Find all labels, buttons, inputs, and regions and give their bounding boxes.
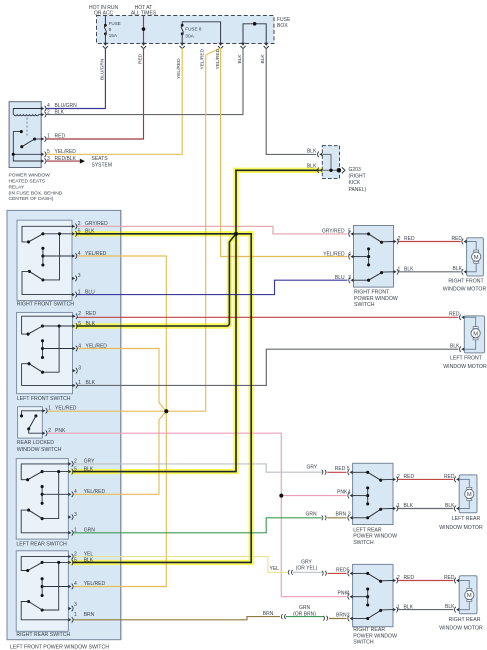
svg-text:BOX: BOX [277, 23, 288, 29]
left rear window motor pin BLK [456, 507, 459, 510]
svg-text:WINDOW MOTOR: WINDOW MOTOR [439, 525, 483, 531]
right rear power window switch lower blade dots [366, 617, 369, 620]
right front switch center bar mid dot [41, 254, 44, 257]
svg-text:YEL/RED: YEL/RED [176, 58, 182, 79]
svg-text:RED: RED [404, 474, 415, 480]
right rear switch right internal riser [42, 562, 59, 610]
right front power window switch lower blade [369, 273, 382, 281]
left rear switch upper blade [28, 472, 42, 480]
svg-text:FUSE: FUSE [109, 21, 121, 26]
left rear window motor brush caps [467, 487, 472, 489]
relay contact dot upper [20, 130, 23, 133]
svg-text:3: 3 [78, 273, 81, 279]
right rear power window switch pin 3 [350, 617, 353, 620]
right rear power window switch upper blade [368, 573, 381, 581]
svg-text:2: 2 [78, 221, 81, 227]
svg-text:RED: RED [336, 567, 347, 573]
left front switch box [17, 312, 73, 393]
right rear power window switch pin5 internal lead [353, 572, 368, 574]
svg-text:BRN: BRN [263, 611, 274, 617]
left front switch center bar bottom dot [41, 356, 44, 359]
left front switch riser junction dot [58, 324, 61, 327]
relay blade [22, 139, 35, 147]
svg-text:4: 4 [47, 103, 50, 109]
relay pin 4 [41, 107, 44, 110]
left rear switch pin 1 [68, 531, 71, 534]
right rear power window switch pin2 internal lead [381, 580, 393, 582]
svg-text:3: 3 [47, 156, 50, 162]
left front switch upper blade contact dot [41, 324, 44, 327]
relay pin 2 [41, 113, 44, 116]
left rear switch pin4 internal lead [42, 493, 68, 495]
left rear power window switch pin 1 [393, 507, 396, 510]
fuse F9 [104, 24, 107, 27]
svg-text:1: 1 [397, 503, 400, 509]
right front switch pin 4 [72, 254, 75, 257]
right front power window switch pin 5 [350, 232, 353, 235]
right rear switch lower blade contact dot [41, 608, 44, 611]
right rear power window switch center contact bar [367, 589, 369, 605]
right front window motor armature circle [472, 252, 481, 261]
left rear switch pin 3 [68, 515, 71, 518]
svg-text:OR ACC: OR ACC [94, 10, 114, 16]
svg-text:4: 4 [348, 251, 351, 257]
left rear switch upper blade contact dot [41, 470, 44, 473]
svg-text:G203: G203 [349, 167, 361, 173]
right rear switch center contact bar [41, 579, 43, 596]
right front switch center bar top dot [41, 247, 44, 250]
left front switch pin 5 [73, 324, 76, 327]
right rear power window switch lower blade [368, 610, 381, 618]
wire YEL/RED junction J2 to right front switch pin4 [77, 256, 167, 411]
right rear switch pin2 internal lead [21, 557, 68, 571]
left front switch pin 1 [73, 384, 76, 387]
right front power window switch upper blade [369, 234, 382, 242]
G203 connector pin upper [319, 153, 322, 156]
left front switch pin2 internal lead [22, 316, 73, 334]
svg-text:(RIGHT: (RIGHT [349, 174, 366, 180]
right rear switch pin 1 [68, 618, 71, 621]
left rear switch center contact bar [41, 487, 43, 504]
wire YEL/RED junction J2 to left front switch pin4 [77, 349, 166, 412]
right front power window switch pin5 internal lead [354, 233, 369, 235]
right rear switch pin 2 [68, 555, 71, 558]
right rear switch lower blade pivot dot [27, 600, 30, 603]
left front switch upper blade pivot dot [27, 333, 30, 336]
highlighted circuit core lines [73, 170, 319, 562]
relay blade pivot dot [33, 137, 36, 140]
rear locked window switch box [18, 407, 43, 438]
svg-text:RIGHT FRONT SWITCH: RIGHT FRONT SWITCH [17, 302, 74, 308]
wire BRN connector to left rear power window switch pin3 [327, 517, 346, 519]
wire RED right rear power window switch to motor [397, 580, 453, 582]
left rear power window switch pin2 internal lead [381, 478, 393, 480]
svg-text:BLK: BLK [84, 558, 94, 564]
svg-text:BLU/GRN: BLU/GRN [55, 103, 78, 109]
svg-text:BLK: BLK [85, 229, 95, 235]
wire BLK relay pin2 to fuse box [46, 48, 243, 115]
svg-text:2: 2 [398, 236, 401, 242]
svg-text:YEL/RED: YEL/RED [323, 251, 345, 257]
svg-text:(OR BRN): (OR BRN) [293, 611, 316, 617]
svg-text:GRY/RED: GRY/RED [85, 221, 108, 227]
right rear switch center bar bottom dot [41, 594, 44, 597]
svg-text:3: 3 [347, 613, 350, 619]
svg-text:BLK: BLK [450, 344, 460, 350]
fuse box exit terminal BLK left [241, 43, 245, 46]
svg-text:RIGHT REAR SWITCH: RIGHT REAR SWITCH [16, 632, 70, 638]
svg-text:RED: RED [444, 575, 455, 581]
svg-text:GRN: GRN [299, 605, 311, 611]
left rear switch pin1 internal lead [21, 510, 68, 533]
left front switch center contact bar [42, 341, 44, 358]
wire RED right front power window switch to motor [398, 241, 461, 243]
svg-text:4: 4 [74, 489, 77, 495]
left front switch upper blade [28, 326, 42, 334]
svg-text:30A: 30A [185, 33, 194, 39]
left rear switch lower blade contact dot [41, 517, 44, 520]
svg-text:2: 2 [397, 474, 400, 480]
svg-text:YEL/RED: YEL/RED [86, 343, 108, 349]
wire YEL/RED fuse8 branch to right front power window switch pin4 [221, 48, 348, 257]
svg-text:LEFT REAR: LEFT REAR [452, 516, 481, 522]
connector GRY/RED left rear [322, 470, 323, 475]
svg-text:BRN: BRN [84, 612, 95, 618]
wire RED bus to relay pin1 [46, 48, 144, 139]
wire RED/BLK relay pin3 to seats system [46, 160, 80, 162]
svg-text:RIGHT REAR: RIGHT REAR [353, 627, 385, 633]
svg-text:LEFT FRONT POWER WINDOW SWITCH: LEFT FRONT POWER WINDOW SWITCH [10, 644, 109, 650]
left front power window (master) switch box [7, 210, 121, 639]
right front power window switch center bar dots [367, 247, 370, 250]
svg-text:BLK: BLK [453, 266, 463, 272]
wire RED left front switch pin2 to left front window motor [77, 316, 458, 318]
svg-text:4: 4 [74, 581, 77, 587]
ground symbol G203 chevron [342, 167, 345, 173]
left rear switch pin 5 [68, 470, 71, 473]
right front switch lower blade [29, 271, 43, 280]
right rear power window switch pin4 internal lead [353, 596, 368, 598]
svg-text:FUSE: FUSE [277, 17, 291, 23]
svg-text:2: 2 [74, 459, 77, 465]
svg-text:ALL TIMES: ALL TIMES [131, 10, 157, 16]
svg-text:5: 5 [348, 229, 351, 235]
connector BRN to GRN [281, 614, 282, 619]
wire GRY (OR YEL) connector segment [292, 571, 322, 573]
right rear switch upper blade [28, 562, 42, 570]
svg-text:1: 1 [47, 134, 50, 140]
svg-text:2: 2 [74, 551, 77, 557]
svg-text:RELAY: RELAY [9, 184, 25, 190]
wire PNK rear locked window switch pin2 to pin4 bus [47, 433, 347, 495]
svg-text:(OR YEL): (OR YEL) [296, 566, 318, 572]
connector GRN to BRN right rear [323, 616, 324, 621]
svg-text:YEL/RED: YEL/RED [55, 149, 77, 155]
left front switch pin4 internal lead [43, 348, 73, 350]
right rear switch pin1 internal lead [21, 602, 68, 620]
svg-text:3: 3 [74, 602, 77, 608]
right rear switch riser junction dot [57, 561, 60, 564]
left rear window motor armature circle [465, 489, 474, 498]
fuse box exit terminal BLK right [264, 43, 268, 46]
right front switch pin 3 [72, 277, 75, 280]
svg-text:SWITCH: SWITCH [353, 540, 374, 546]
svg-text:GRY: GRY [307, 464, 318, 470]
svg-text:M: M [467, 492, 472, 498]
right rear window motor box [459, 576, 477, 614]
svg-text:BLK: BLK [237, 54, 243, 64]
svg-text:POWER WINDOW: POWER WINDOW [353, 534, 397, 540]
svg-text:LEFT FRONT: LEFT FRONT [450, 356, 483, 362]
left rear power window switch center contact bar [367, 488, 369, 504]
svg-text:15A: 15A [109, 33, 118, 39]
seats system arrow [80, 159, 85, 164]
svg-text:KICK: KICK [349, 180, 361, 186]
left rear switch riser junction dot [57, 470, 60, 473]
svg-text:RIGHT FRONT: RIGHT FRONT [354, 290, 390, 296]
left front switch lower blade pivot dot [27, 362, 30, 365]
wire BRN right rear switch pin1 to connector [73, 617, 280, 620]
svg-text:BLK: BLK [445, 503, 455, 509]
svg-text:WINDOW MOTOR: WINDOW MOTOR [443, 286, 487, 292]
wire fuse 8 top feed [182, 22, 220, 44]
fuse F8 [181, 24, 184, 27]
left rear switch right internal riser [42, 472, 59, 519]
ground terminal dot G203 [337, 168, 342, 173]
svg-text:LEFT REAR SWITCH: LEFT REAR SWITCH [16, 542, 67, 548]
left front switch pin 3 [73, 369, 76, 372]
right rear switch lower blade [29, 602, 42, 611]
left front window motor brush caps [473, 327, 478, 329]
svg-text:RIGHT FRONT: RIGHT FRONT [448, 279, 484, 285]
svg-text:YEL/RED: YEL/RED [200, 48, 206, 69]
wire PNK bus to right rear power window switch pin4 [281, 496, 346, 597]
svg-text:3: 3 [78, 366, 81, 372]
wire YEL/RED junction J2 to right rear switch pin4 [73, 411, 166, 586]
relay pin 1 [41, 137, 44, 140]
svg-text:5: 5 [347, 567, 350, 573]
relay coil [39, 114, 41, 116]
svg-text:REAR LOCKED: REAR LOCKED [17, 440, 54, 446]
right front power window switch pin 1 [394, 270, 397, 273]
right front switch center bar bottom dot [41, 263, 44, 266]
left front switch pin5 internal lead [43, 325, 73, 327]
left rear window motor box [459, 475, 477, 513]
svg-text:RED: RED [86, 311, 97, 317]
wire RED connector to right rear power window switch pin5 [328, 572, 347, 574]
left front switch pin1 internal lead [22, 364, 73, 386]
right rear power window switch pin 1 [393, 608, 396, 611]
left rear window motor pin RED [456, 478, 459, 481]
left rear power window switch box [353, 463, 393, 524]
right front power window switch pin 2 [394, 240, 397, 243]
right front power window switch box [354, 226, 394, 288]
master switch box right edge over glow [120, 210, 122, 639]
svg-text:YEL/RED: YEL/RED [84, 581, 106, 587]
svg-text:FUSE 8: FUSE 8 [185, 26, 202, 31]
wire hot-at-all-times RED bus [143, 16, 145, 44]
svg-text:BLK: BLK [445, 604, 455, 610]
left rear switch lower blade [29, 510, 42, 518]
svg-text:RED: RED [55, 134, 66, 140]
wire BLK fuse box to G203 connector [266, 48, 316, 154]
left rear switch pin2 internal lead [21, 464, 68, 480]
svg-text:BLU: BLU [85, 289, 95, 295]
rear locked window switch pin 1 [42, 409, 45, 412]
left rear power window switch pin1 internal lead [381, 508, 393, 510]
right rear switch pin5 internal lead [42, 561, 68, 563]
right rear switch pin4 internal lead [42, 586, 68, 588]
junction dot on RED bus [142, 27, 146, 31]
relay pin5 lead [13, 153, 41, 155]
left rear switch pin 2 [68, 462, 71, 465]
wire BLK left front switch pin1 to left front window motor [77, 349, 458, 385]
svg-text:2: 2 [48, 428, 51, 434]
right front switch pin 5 [72, 232, 75, 235]
svg-text:BLK: BLK [55, 109, 65, 115]
left rear switch upper blade pivot dot [26, 478, 29, 481]
left front switch center bar mid dot [41, 347, 44, 350]
svg-text:SWITCH: SWITCH [354, 302, 375, 308]
svg-text:BLK: BLK [260, 54, 266, 64]
right front power window switch pin1 internal lead [382, 271, 394, 273]
wire BLK right rear power window switch to motor [397, 609, 453, 611]
svg-text:3: 3 [74, 512, 77, 518]
svg-text:2: 2 [78, 311, 81, 317]
left rear power window switch pin4 internal lead [353, 495, 368, 497]
svg-text:M: M [473, 331, 478, 337]
wire fuse 8 output to exit [181, 34, 183, 44]
fuse box exit terminal YEL/RED A [180, 43, 184, 46]
svg-text:4: 4 [78, 251, 81, 257]
relay blade tip dot [20, 145, 23, 148]
wire GRN left rear switch pin1 to connector [73, 518, 322, 533]
svg-text:5: 5 [78, 321, 81, 327]
wire fuse 9 output to exit [104, 34, 106, 44]
power window / heated seats relay box [9, 102, 41, 168]
left rear switch lower blade pivot dot [27, 509, 30, 512]
svg-text:1: 1 [397, 604, 400, 610]
left front switch right internal riser [43, 326, 60, 372]
right rear switch pin 4 [68, 585, 71, 588]
right front window motor box [467, 238, 484, 276]
right front power window switch pin 3 [350, 279, 353, 282]
svg-text:GRN: GRN [306, 512, 318, 518]
left front window motor pin RED [461, 316, 464, 319]
left rear power window switch pin 4 [350, 494, 353, 497]
svg-text:LEFT REAR: LEFT REAR [353, 528, 382, 534]
svg-text:PNK: PNK [337, 489, 348, 495]
svg-text:SWITCH: SWITCH [353, 640, 374, 646]
wire YEL/RED fuse8 to relay pin5 [46, 48, 182, 154]
right rear switch upper blade pivot dot [26, 569, 29, 572]
svg-text:5: 5 [74, 466, 77, 472]
right rear switch pin 5 [68, 561, 71, 564]
right rear switch center bar mid dot [41, 585, 44, 588]
left rear switch center bar mid dot [41, 493, 44, 496]
wire RED connector to left rear power window switch pin5 [327, 471, 346, 473]
wire BLK left rear power window switch to motor [397, 508, 453, 510]
wire BLU right front switch pin1 to right front power window switch [77, 280, 348, 294]
right rear window motor internal leads [459, 581, 469, 589]
right rear power window switch box [353, 564, 393, 626]
right front power window switch pin 4 [350, 255, 353, 258]
left rear switch center bar top dot [41, 485, 44, 488]
left rear switch box [16, 459, 68, 539]
wire GRN (OR BRN) connector segment [286, 616, 324, 618]
left front switch pin 4 [73, 347, 76, 350]
right front switch riser junction dot [58, 232, 61, 235]
wire BRN connector to right rear power window switch pin3 [329, 618, 347, 620]
svg-text:CENTER OF DASH): CENTER OF DASH) [9, 196, 54, 202]
fuse box exit terminal RED [141, 43, 145, 46]
right front switch pin1 internal lead [22, 271, 72, 294]
svg-text:1: 1 [74, 528, 77, 534]
right front power window switch upper blade dots [367, 232, 370, 235]
svg-text:3: 3 [348, 275, 351, 281]
right rear power window switch pin1 internal lead [381, 609, 393, 611]
svg-text:RED: RED [138, 53, 144, 64]
svg-text:BLK: BLK [404, 604, 414, 610]
right front switch lower blade pivot dot [28, 270, 31, 273]
svg-text:YEL: YEL [270, 566, 280, 572]
connector GRN/BRN left rear [322, 515, 323, 520]
svg-text:POWER WINDOW: POWER WINDOW [353, 633, 397, 639]
rear locked window switch contact dot A [20, 414, 23, 417]
rear locked window switch blade [29, 416, 36, 429]
svg-text:1: 1 [78, 380, 81, 386]
right front switch pin2 internal lead [22, 226, 72, 242]
wire BLK right front power window switch to motor [398, 271, 461, 273]
left rear power window switch pin 5 [350, 471, 353, 474]
left rear power window switch upper blade [368, 472, 381, 480]
svg-text:RED/BLK: RED/BLK [55, 156, 77, 162]
svg-text:5: 5 [78, 229, 81, 235]
wire YEL/RED junction J2 to left rear switch pin4 [73, 411, 166, 494]
left front switch pin 2 [73, 315, 76, 318]
svg-text:YEL/RED: YEL/RED [215, 48, 221, 69]
right rear power window switch pin 5 [350, 572, 353, 575]
svg-text:5: 5 [74, 558, 77, 564]
right rear power window switch pin3 internal lead [353, 618, 368, 620]
svg-text:PNK: PNK [55, 428, 66, 434]
right front switch upper blade contact dot [41, 232, 44, 235]
svg-text:RED: RED [451, 236, 462, 242]
svg-text:WINDOW SWITCH: WINDOW SWITCH [17, 447, 62, 453]
right front switch lower blade contact dot [41, 278, 44, 281]
fuse box exit terminal BLU/GRN [103, 43, 107, 46]
wire YEL right rear switch pin2 to connector [73, 557, 287, 573]
left front window motor internal leads [464, 317, 475, 326]
relay common junction dot [12, 153, 15, 156]
left rear power window switch pin 2 [393, 478, 396, 481]
svg-text:1: 1 [48, 406, 51, 412]
junction dot on BLK bridge [253, 22, 257, 26]
right front switch box [17, 220, 72, 300]
svg-text:4: 4 [347, 591, 350, 597]
right rear power window switch center bar dots [366, 587, 369, 590]
svg-text:PANEL): PANEL) [349, 187, 367, 193]
right front window motor brush caps [474, 250, 479, 252]
svg-text:GRY/RED: GRY/RED [322, 229, 345, 235]
right rear window motor pin RED [456, 579, 459, 582]
svg-text:BLK: BLK [307, 163, 317, 169]
relay pin 5 [41, 153, 44, 156]
right rear power window switch pin 4 [350, 595, 353, 598]
svg-text:BRN: BRN [336, 512, 347, 518]
svg-text:SEATS: SEATS [92, 156, 109, 162]
svg-text:GRN: GRN [84, 528, 96, 534]
